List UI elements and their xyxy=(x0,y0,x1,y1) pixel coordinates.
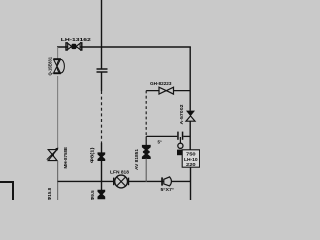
label 5 deg xyxy=(158,139,162,144)
reducer 5x7 (horn) on suction line xyxy=(161,177,171,186)
wire: suction line horizontal xyxy=(58,180,191,182)
expansion valve MH-8758E xyxy=(47,148,59,161)
wire: top header horizontal xyxy=(57,46,191,48)
fan LFN 818 (circle with X) xyxy=(113,175,129,188)
label pipe size bottom left xyxy=(47,187,52,200)
valve Q-15E831 (motorized valve, left line) xyxy=(53,58,64,74)
wire: center vertical below suction line xyxy=(101,182,103,191)
muffler M2 bottom of center line xyxy=(98,190,106,199)
wire: left vertical below expansion valve xyxy=(57,161,59,200)
outdoor unit box corner bottom-left xyxy=(0,182,13,200)
svg-text:220: 220 xyxy=(186,162,196,167)
svg-text:5°X7°: 5°X7° xyxy=(161,187,175,192)
svg-text:LFN 818: LFN 818 xyxy=(110,169,130,174)
wire: center vertical into muffler xyxy=(101,143,103,153)
svg-text:LH-13162: LH-13162 xyxy=(61,37,91,43)
valve LH-13162 on top header xyxy=(66,43,82,50)
label LH-13162 xyxy=(61,37,91,43)
wire: dashed drop from GH branch xyxy=(145,91,147,137)
label LFN 818 xyxy=(110,169,130,174)
svg-text:MH-8758E: MH-8758E xyxy=(63,147,68,169)
capacitor C2 (joint on capillary branch) xyxy=(177,132,190,140)
wire: left vertical gray (valve to expansion valve) xyxy=(57,76,59,149)
capacitor C1 (union joint on center line) xyxy=(97,69,108,72)
label pipe size left of muffler M1 xyxy=(90,147,95,163)
label pipe size left of muffler M2 xyxy=(90,190,95,201)
wire: drop from capillary corner to strainer xyxy=(145,136,147,145)
sensor bulb node (open circle) xyxy=(178,143,183,148)
wire: left drop from header corner xyxy=(57,47,59,59)
label A-57002 xyxy=(179,104,184,125)
svg-text:Φ8(1): Φ8(1) xyxy=(90,147,95,163)
compressor box 750 LH-10 220 xyxy=(182,150,199,167)
label AV-81851 xyxy=(134,148,139,170)
wire: strainer to suction line xyxy=(145,159,147,183)
label Q-15E831 xyxy=(47,56,52,75)
muffler M1 on center line xyxy=(98,152,106,161)
wire: right vertical from header xyxy=(189,47,191,111)
valve GH-82223 xyxy=(159,87,174,94)
wire: center vertical muffler to suction line xyxy=(101,161,103,182)
wire: center vertical dashed section xyxy=(101,91,103,143)
svg-text:AV 81851: AV 81851 xyxy=(134,148,139,170)
svg-text:5°: 5° xyxy=(158,139,162,144)
svg-text:Φ9.5: Φ9.5 xyxy=(90,190,95,200)
label GH-82223 xyxy=(150,81,172,86)
wire: sensor stub xyxy=(179,137,181,143)
svg-text:Φ15.8: Φ15.8 xyxy=(47,187,52,200)
wire: center vertical below joint xyxy=(101,73,103,92)
wire: center vertical top (liquid line) xyxy=(101,0,103,69)
label MH-8758E xyxy=(63,147,68,169)
svg-text:A-57002: A-57002 xyxy=(179,104,184,125)
strainer AV-81851 (double muffler stack) xyxy=(142,145,151,159)
valve GH-82223 branch wire xyxy=(146,90,190,92)
svg-text:GH-82223: GH-82223 xyxy=(150,81,172,86)
label 5x7 xyxy=(161,187,175,192)
wire: right vertical below check valve xyxy=(189,121,191,150)
sensor pad (filled square) xyxy=(177,150,184,156)
svg-text:Q-15E831: Q-15E831 xyxy=(47,56,52,75)
wire: right vertical below box to bottom xyxy=(190,167,192,200)
check valve A-57002 on right vertical xyxy=(186,111,195,122)
wire: capillary branch horizontal xyxy=(146,135,177,137)
